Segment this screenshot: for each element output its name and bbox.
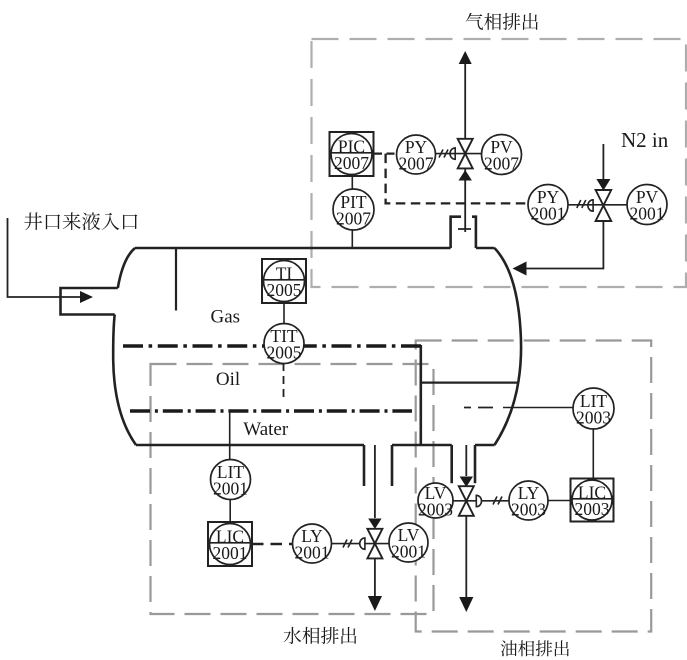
transmitter TIT 2005 bbox=[264, 324, 304, 364]
pneumatic signal marks on PV2007 stem line bbox=[439, 150, 448, 158]
svg-text:2003: 2003 bbox=[418, 500, 453, 520]
N2 arrow into vessel bbox=[513, 262, 527, 276]
dashed signal PIC2007 branch to PY2001 bbox=[386, 154, 528, 204]
positioner LV 2003 bbox=[418, 483, 453, 520]
wire LV2003 through oil valve to LY2003 bbox=[453, 500, 509, 502]
svg-text:2005: 2005 bbox=[267, 280, 302, 300]
relay LY 2001 bbox=[293, 524, 332, 563]
water outlet pipe upper bbox=[374, 445, 376, 518]
svg-text:2007: 2007 bbox=[334, 153, 369, 173]
inlet deflector baffle bbox=[175, 248, 177, 311]
weir plate bbox=[419, 345, 422, 445]
wire LIC2003 to LY2003 bbox=[548, 500, 570, 502]
pneumatic marks LY2001-valve bbox=[343, 540, 352, 548]
gas outlet pipe riser bbox=[458, 64, 471, 232]
level tap dash inside vessel bbox=[464, 407, 493, 409]
inlet nozzle bbox=[61, 288, 118, 315]
label 水相排出 (water phase discharge) bbox=[284, 627, 357, 644]
water-discharge boundary box bbox=[151, 364, 434, 614]
label 井口来液入口 (wellhead inlet) bbox=[24, 212, 137, 230]
svg-text:2007: 2007 bbox=[336, 209, 371, 229]
svg-text:2007: 2007 bbox=[399, 154, 434, 174]
relay LY 2003 bbox=[509, 481, 548, 520]
svg-text:N2 in: N2 in bbox=[621, 128, 669, 152]
transmitter LIT 2003 bbox=[573, 388, 614, 429]
separator vessel shell bottom edge bbox=[136, 444, 495, 447]
pneumatic marks LY2003-valve bbox=[493, 497, 502, 505]
indicator TI 2005 bbox=[262, 259, 306, 303]
controller LIC 2003 bbox=[571, 479, 614, 522]
oil outlet pipe lower bbox=[465, 516, 467, 597]
oil-discharge boundary box bbox=[416, 341, 652, 632]
positioner LV 2001 bbox=[389, 523, 428, 562]
svg-text:2001: 2001 bbox=[213, 479, 248, 499]
control valve PV-2001 body bbox=[588, 190, 611, 221]
svg-text:2007: 2007 bbox=[484, 154, 519, 174]
wire TI2005 to TIT2005 bbox=[283, 303, 285, 325]
inlet flow arrow bbox=[80, 291, 93, 303]
svg-text:Water: Water bbox=[243, 419, 289, 440]
oil/water interface dash-dot line bbox=[130, 409, 412, 412]
wire PIC2007 to PIT2007 bbox=[351, 175, 353, 190]
oil flow arrow into valve bbox=[460, 477, 473, 488]
separator vessel shell top edge bbox=[135, 247, 495, 250]
N2 inlet pipe bbox=[602, 144, 604, 179]
wire PIT2007 to vessel tap bbox=[351, 230, 353, 248]
pneumatic signal marks on PV2001 stem line bbox=[577, 200, 586, 208]
svg-text:2001: 2001 bbox=[531, 204, 566, 224]
wire LIT2001 to LIC2001 bbox=[229, 500, 231, 522]
oil discharge arrow bbox=[459, 597, 473, 612]
wire PY2007 through valve to PV2007 bbox=[436, 153, 482, 155]
N2 pipe into vessel bbox=[526, 222, 603, 269]
control valve LV-2001 body bbox=[360, 529, 383, 559]
relay PY 2007 bbox=[397, 135, 436, 174]
svg-text:2003: 2003 bbox=[511, 500, 546, 520]
water outlet nozzle walls bbox=[364, 445, 392, 486]
gas discharge arrow bbox=[459, 51, 472, 64]
oil outlet nozzle walls bbox=[452, 445, 475, 483]
controller PIC 2007 bbox=[330, 132, 374, 176]
dashed tap TIT2005 into vessel bbox=[283, 363, 285, 400]
inlet pipe (wellhead liquid) bbox=[8, 218, 81, 297]
svg-text:2001: 2001 bbox=[630, 204, 665, 224]
vessel left end cap bbox=[113, 248, 136, 445]
control valve PV-2007 body bbox=[450, 139, 473, 169]
water outlet pipe lower bbox=[374, 558, 376, 596]
wire LY2001 through water valve to LV2001 bbox=[332, 543, 390, 545]
svg-text:2003: 2003 bbox=[575, 499, 610, 519]
transmitter PIT 2007 bbox=[333, 189, 374, 230]
svg-text:Gas: Gas bbox=[211, 306, 241, 327]
dashed signal PIC2007 to PY2007 bbox=[374, 153, 397, 155]
svg-text:2001: 2001 bbox=[295, 543, 330, 563]
svg-text:2001: 2001 bbox=[213, 543, 248, 563]
positioner PV 2007 bbox=[482, 135, 522, 175]
oil level line right of weir bbox=[421, 382, 519, 384]
dashed signal LIC2001 to LY2001 bbox=[252, 543, 292, 546]
gas outlet nozzle on vessel top bbox=[451, 217, 476, 248]
wire vessel to LIT2003 bbox=[503, 407, 573, 409]
controller LIC 2001 bbox=[208, 522, 252, 566]
oil outlet pipe upper bbox=[465, 445, 467, 476]
control valve LV-2003 body bbox=[459, 486, 482, 516]
relay PY 2001 bbox=[528, 185, 568, 225]
N2 flow arrow into valve bbox=[596, 179, 610, 191]
flow arrow into PV2007 valve bbox=[459, 170, 472, 181]
svg-text:2003: 2003 bbox=[576, 408, 611, 428]
label 油相排出 (oil phase discharge) bbox=[501, 640, 569, 656]
svg-text:2005: 2005 bbox=[267, 343, 302, 363]
water discharge arrow bbox=[368, 596, 382, 611]
label 气相排出 (gas phase discharge) bbox=[466, 13, 538, 30]
positioner PV 2001 bbox=[627, 185, 667, 225]
wire LIT2003 to LIC2003 bbox=[592, 429, 594, 478]
gas/oil interface dash-dot line bbox=[123, 344, 421, 347]
vessel right end cap bbox=[495, 248, 522, 445]
wire PY2001 through valve to PV2001 bbox=[568, 204, 627, 206]
svg-text:2001: 2001 bbox=[391, 542, 426, 562]
transmitter LIT 2001 bbox=[211, 460, 251, 500]
wire vessel tap to LIT2001 bbox=[229, 411, 231, 459]
gas-discharge boundary box bbox=[312, 39, 687, 287]
svg-text:Oil: Oil bbox=[216, 369, 240, 390]
water flow arrow into valve bbox=[368, 519, 381, 530]
